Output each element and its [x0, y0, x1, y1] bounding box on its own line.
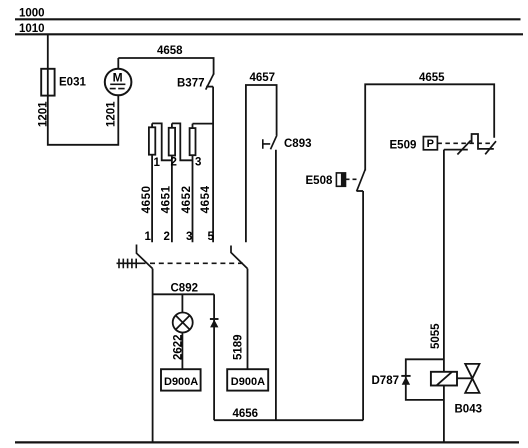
svg-text:1201: 1201 — [38, 101, 50, 127]
svg-text:M: M — [113, 70, 123, 84]
svg-text:4651: 4651 — [161, 185, 173, 213]
svg-text:4655: 4655 — [419, 72, 445, 84]
svg-text:1: 1 — [154, 157, 161, 169]
svg-text:E508: E508 — [306, 175, 333, 187]
svg-text:4657: 4657 — [250, 72, 276, 84]
svg-text:D900A: D900A — [231, 376, 265, 388]
svg-text:4658: 4658 — [157, 45, 183, 57]
svg-text:D787: D787 — [372, 375, 400, 387]
svg-text:2: 2 — [171, 156, 177, 168]
svg-text:3: 3 — [195, 156, 201, 168]
svg-text:5055: 5055 — [430, 323, 442, 349]
svg-text:2622: 2622 — [173, 334, 185, 360]
svg-text:4652: 4652 — [181, 185, 193, 213]
svg-text:3: 3 — [186, 231, 192, 243]
svg-text:P: P — [427, 138, 434, 150]
svg-text:C892: C892 — [171, 283, 199, 295]
svg-text:1010: 1010 — [19, 23, 45, 35]
svg-text:D900A: D900A — [164, 376, 198, 388]
svg-text:C893: C893 — [284, 138, 312, 150]
svg-text:E509: E509 — [390, 140, 417, 152]
svg-text:4656: 4656 — [233, 408, 259, 420]
svg-text:1000: 1000 — [19, 7, 45, 19]
svg-text:B043: B043 — [455, 403, 483, 415]
svg-text:4650: 4650 — [141, 185, 153, 213]
svg-text:1: 1 — [145, 231, 152, 243]
svg-text:B377: B377 — [177, 77, 205, 89]
svg-text:5189: 5189 — [233, 334, 245, 360]
svg-text:5: 5 — [208, 231, 215, 243]
svg-text:E031: E031 — [59, 77, 86, 89]
svg-text:2: 2 — [164, 231, 170, 243]
svg-text:1201: 1201 — [105, 101, 117, 127]
svg-text:4654: 4654 — [200, 185, 212, 213]
